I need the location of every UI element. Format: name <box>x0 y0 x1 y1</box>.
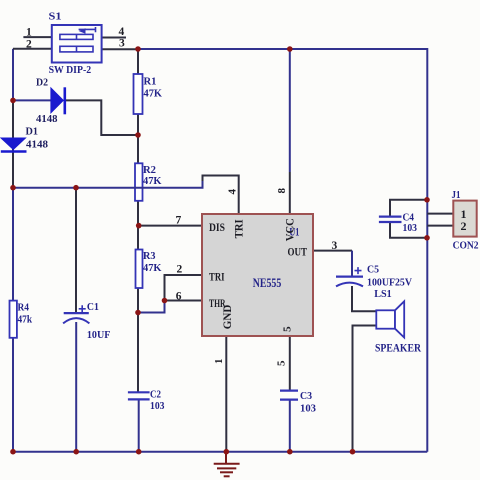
wire C2 to bottom rail <box>138 399 140 451</box>
svg-text:D1: D1 <box>26 126 39 138</box>
wire pin 8 stub <box>289 172 291 214</box>
svg-text:TRI: TRI <box>232 219 246 238</box>
wire trigger net y=188 <box>13 180 203 188</box>
svg-text:103: 103 <box>300 403 316 415</box>
wire pin 1 to ground node <box>225 336 227 452</box>
svg-text:OUT: OUT <box>288 244 308 258</box>
resistor R1 <box>134 74 143 114</box>
wire D2 anode <box>13 99 52 101</box>
wire C4 top link <box>390 200 427 217</box>
svg-text:1: 1 <box>26 27 32 39</box>
svg-text:2: 2 <box>177 263 183 275</box>
wire S1 pin 4 stub <box>102 37 126 39</box>
svg-text:47K: 47K <box>143 262 162 274</box>
capacitor C4 <box>379 217 402 222</box>
wire C4 bottom link <box>390 222 427 238</box>
svg-text:5: 5 <box>276 360 288 366</box>
wire left rail upper <box>12 49 14 101</box>
svg-text:DIS: DIS <box>209 220 225 234</box>
diode D2 <box>51 87 65 114</box>
wire pin 6 to R3 node <box>138 301 165 313</box>
wire pin 5 to C3 <box>289 336 291 391</box>
wire S1 pin 3 to rail <box>102 48 138 50</box>
svg-text:R3: R3 <box>143 250 156 262</box>
svg-text:C1: C1 <box>87 301 99 313</box>
svg-text:103: 103 <box>403 222 418 234</box>
resistor R2 <box>135 163 143 201</box>
svg-text:47k: 47k <box>18 313 33 325</box>
wire left rail D1 segment <box>12 100 14 187</box>
svg-text:C3: C3 <box>300 390 312 402</box>
svg-text:TRI: TRI <box>209 270 225 284</box>
svg-text:1: 1 <box>213 359 225 365</box>
wire bottom rail <box>13 451 427 453</box>
svg-text:103: 103 <box>150 400 165 412</box>
svg-text:4: 4 <box>119 26 125 38</box>
svg-text:4148: 4148 <box>36 113 58 125</box>
wire VCC branch <box>289 49 291 172</box>
capacitor C3 <box>280 391 298 400</box>
capacitor C2 <box>128 392 150 399</box>
wire C3 to bottom rail <box>289 400 291 452</box>
wire J1 pin 1 <box>427 213 453 215</box>
wire speaker to bottom rail <box>353 326 377 452</box>
wire J1 pin 2 <box>427 225 453 227</box>
svg-text:NE555: NE555 <box>253 276 281 290</box>
svg-text:LS1: LS1 <box>374 288 392 300</box>
svg-text:5: 5 <box>282 326 294 332</box>
wire C1 branch lower <box>75 322 77 452</box>
wire pin 3 out <box>313 250 352 252</box>
wire pin 6 stub <box>165 300 203 302</box>
svg-text:47K: 47K <box>143 175 162 187</box>
wire top rail and right rail <box>138 49 427 452</box>
ground <box>214 452 240 477</box>
svg-text:2: 2 <box>461 219 467 233</box>
svg-text:8: 8 <box>276 188 288 194</box>
wire pin 7 to R2/R3 node <box>139 225 202 227</box>
svg-text:3: 3 <box>332 240 338 252</box>
wire pin 2 <box>165 275 203 301</box>
svg-text:SW DIP-2: SW DIP-2 <box>49 64 92 76</box>
svg-text:D2: D2 <box>36 77 48 89</box>
svg-text:2: 2 <box>26 39 32 51</box>
svg-text:R1: R1 <box>144 76 157 88</box>
svg-text:VCC: VCC <box>282 218 296 241</box>
wire C1 branch upper <box>75 188 77 313</box>
svg-text:S1: S1 <box>49 11 62 23</box>
resistor R4 <box>10 301 17 338</box>
svg-text:4148: 4148 <box>26 139 49 151</box>
switch S1 body <box>52 25 102 63</box>
svg-text:C5: C5 <box>367 264 379 276</box>
svg-text:100UF25V: 100UF25V <box>367 276 412 288</box>
svg-text:J1: J1 <box>452 189 461 201</box>
diode D1 <box>1 138 27 152</box>
svg-text:SPEAKER: SPEAKER <box>375 343 422 355</box>
svg-text:4: 4 <box>227 189 239 195</box>
connector J1 body <box>453 201 476 237</box>
svg-text:3: 3 <box>119 38 125 50</box>
capacitor C1 <box>63 305 89 323</box>
speaker LS1 symbol <box>376 301 404 337</box>
wire C5 to speaker <box>352 286 376 311</box>
svg-text:CON2: CON2 <box>453 240 479 252</box>
wire S1 pin 2 <box>13 48 52 50</box>
svg-text:GND: GND <box>220 304 234 329</box>
resistor R3 <box>136 250 143 289</box>
capacitor C5 <box>336 267 363 286</box>
svg-text:6: 6 <box>176 290 182 302</box>
svg-text:47K: 47K <box>144 88 163 100</box>
svg-text:R4: R4 <box>18 302 30 314</box>
svg-text:10UF: 10UF <box>87 329 111 341</box>
wire left rail lower <box>12 188 14 452</box>
wire middle column x=138 <box>137 49 139 392</box>
svg-text:7: 7 <box>176 215 182 227</box>
wire step to pin 4 <box>203 176 239 215</box>
svg-text:C2: C2 <box>150 388 161 400</box>
wire D2 cathode to R1 node <box>65 100 138 135</box>
wire out to C5 <box>351 251 353 277</box>
wire S1 pin 1 <box>23 36 51 38</box>
op-amp U1 NE555 body <box>202 214 313 336</box>
